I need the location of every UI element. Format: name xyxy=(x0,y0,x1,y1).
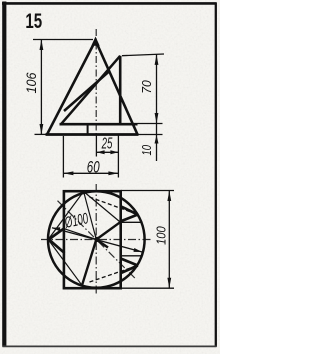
left notch wedge lower arm xyxy=(49,239,65,253)
thin edge P to left vertex xyxy=(48,240,82,286)
dim 60 left extension line xyxy=(62,136,64,178)
dim 100 arrow up xyxy=(167,191,171,202)
dim 25 line xyxy=(97,151,119,153)
border frame top xyxy=(2,2,217,5)
dim 70 arrow up xyxy=(155,54,159,65)
dim 60 arrow right xyxy=(108,171,118,175)
cone left slant edge xyxy=(47,41,96,135)
dim 10 lower shaft xyxy=(156,135,158,162)
axis extension to 25-dim xyxy=(95,135,97,157)
dim 106 line xyxy=(40,40,42,135)
thin edge F to center xyxy=(84,192,97,240)
dim 25 arrow right xyxy=(110,150,118,154)
upper right wedge arm 1 xyxy=(121,206,138,214)
svg-text:15: 15 xyxy=(25,9,42,33)
dim 106 top extension line xyxy=(33,39,93,41)
dim 70 arrow down xyxy=(155,113,159,124)
hidden dashed edge lower xyxy=(90,266,138,283)
inner slant edge L2 xyxy=(64,71,109,111)
prism right vertical edge xyxy=(119,56,122,124)
thick edge center stub down right xyxy=(96,240,108,248)
dim 60 line xyxy=(63,172,118,174)
dim 100 bottom extension line xyxy=(121,287,174,289)
lower right wedge thin base xyxy=(121,255,142,257)
svg-text:106: 106 xyxy=(24,72,39,93)
thick edge center to bottom point xyxy=(82,240,96,286)
thin edge F to right edge xyxy=(84,192,121,223)
dim 100 line xyxy=(168,191,170,289)
45 degree dash-dot diagonal xyxy=(58,201,135,278)
svg-text:100: 100 xyxy=(153,226,168,245)
left notch wedge upper arm xyxy=(49,228,64,239)
svg-text:10: 10 xyxy=(140,145,154,156)
cone right slant edge xyxy=(96,41,138,135)
lower right wedge arm 1 xyxy=(121,259,138,266)
top view center ink dot xyxy=(94,237,99,242)
dim 10 shaft between lines xyxy=(156,124,158,135)
border frame right xyxy=(215,3,217,347)
border frame bottom xyxy=(3,345,217,347)
dim 70 top extension line xyxy=(122,54,164,56)
upper right wedge thin base xyxy=(121,221,142,223)
base extension to dims xyxy=(139,134,163,136)
leader arrow upper left xyxy=(52,227,60,231)
dim 106 arrow down xyxy=(40,124,44,135)
dim 106 arrow up xyxy=(40,40,44,51)
step tick on plate xyxy=(87,124,89,134)
dim 100 top extension line xyxy=(121,190,174,192)
border frame left xyxy=(2,2,6,347)
plate top edge xyxy=(60,123,138,126)
leader arrow lower right xyxy=(134,248,143,252)
base circle xyxy=(48,191,145,288)
vertical axis center line front view xyxy=(95,29,97,135)
svg-text:70: 70 xyxy=(139,80,154,94)
dim 10 arrow up from below xyxy=(155,135,159,144)
svg-text:60: 60 xyxy=(87,158,100,177)
wedge slant edge L1 xyxy=(61,56,120,124)
dim 25/60 right extension line xyxy=(117,136,119,178)
dim 60 arrow left xyxy=(63,171,73,175)
base plate rectangle xyxy=(64,191,121,288)
hidden dashed edge upper xyxy=(90,197,138,215)
plate top extension to dims xyxy=(138,123,163,125)
dim 100 arrow down xyxy=(167,278,171,289)
svg-text:25: 25 xyxy=(101,135,112,152)
thin edge center to left wedge xyxy=(64,229,97,240)
apex ink blob xyxy=(91,37,99,46)
dim 25 arrow left xyxy=(97,150,105,154)
base extension line left for 106 dim xyxy=(35,133,47,135)
dim 70 line xyxy=(156,54,158,123)
upper right wedge arm 2 xyxy=(121,215,138,222)
thin edge F to left vertex xyxy=(48,192,83,240)
lower right wedge arm 2 xyxy=(121,266,138,274)
diameter leader line xyxy=(52,228,142,252)
top view vertical center line xyxy=(95,184,97,294)
top view horizontal center line xyxy=(41,239,152,241)
cone base line xyxy=(46,133,139,136)
thick edge center to right edge xyxy=(96,222,120,240)
